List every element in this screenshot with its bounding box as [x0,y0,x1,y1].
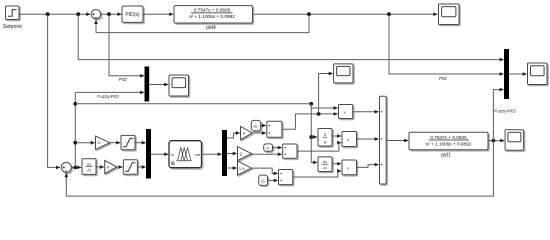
scope Scope5 [505,130,523,150]
svg-text:Fuzzy-PID: Fuzzy-PID [494,109,516,114]
svg-text:0.7547s + 0.0605: 0.7547s + 0.0605 [430,135,467,140]
wire mux2 to scope4 [509,73,527,75]
wire pid1 to scope5 [488,140,504,142]
wire P5 to Add [357,138,379,140]
svg-text:out: out [195,152,201,157]
svg-text:Δu: Δu [87,162,91,166]
node junction x=389 [387,12,391,16]
svg-text:pid1: pid1 [441,153,451,159]
wire saturation2 to mux3 [137,166,145,168]
svg-text:-C-: -C- [265,146,271,151]
wire fuzzy to demux [202,153,222,155]
node junction (311.25,137) [309,135,313,139]
wire PID to plant pid4 [143,13,173,15]
wire P4 to Add [353,111,379,113]
svg-text:PID(s): PID(s) [125,12,140,18]
transfer function plant pid4 [174,6,253,23]
product P3 [279,170,293,185]
svg-text:Setpoint: Setpoint [3,24,23,30]
wire demux out1 to gain Ku1 [227,133,240,138]
svg-text:PID: PID [119,77,127,82]
wire feedback pid loop: down from x=309 [96,14,309,32]
wire e into product4 input1 [311,107,337,109]
wire saturation1 to mux3 [135,142,146,144]
mux Mux3 [147,130,151,179]
wire pid error branch x=109 to mux1 input1 [109,14,144,76]
svg-text:Δu: Δu [323,160,327,164]
wire C1 to product P1 [261,125,266,127]
constant C1 [251,120,260,130]
wire P6 to Add [357,165,379,168]
wire C2 to product P2 [273,147,282,149]
wire fuzzy error to mux1 input2 [75,91,144,93]
wire pid response branch x=389 to mux2 [389,14,504,74]
node junction (75.3,167.4) [73,166,77,170]
scope Scope1 [439,4,460,25]
gain Ku1 triangle [241,126,253,139]
wire error vertical x=311.25 [310,104,312,163]
wire e to integrator [311,136,317,138]
gain 2 triangle [238,147,252,161]
discrete derivative block row2 [82,159,96,175]
wire gain Ke to saturation1 [110,142,120,144]
saturation block row1 [121,135,135,149]
node junction on setpoint line x=47.6 [46,12,50,16]
constant C2 [264,144,273,151]
gain 1.5 triangle [238,161,252,175]
wire C3 to product P3 [268,179,278,181]
gain Kec triangle [105,160,117,173]
transfer function plant pid1 [409,132,488,150]
wire gain Ku1 to product P1 [252,132,266,134]
wire e to discrete derivative 3 [311,161,317,163]
mux Mux2 [505,50,509,99]
sum junction sum1 [91,10,100,19]
node junction on setpoint line x=78.2 [76,12,80,16]
wire integrator to P5 [332,135,341,137]
wire setpoint branch x=78.2 to mux2 input1 [78,14,503,59]
svg-text:pid4: pid4 [206,25,216,31]
scope Scope2 [169,75,189,96]
constant C3 [259,175,268,185]
wire gain 2 to product P2 [252,153,282,155]
product P1 [267,121,282,137]
wire P2 output Ki to P5 [297,143,341,152]
svg-text:0.7547s + 0.0605: 0.7547s + 0.0605 [194,8,231,13]
svg-text:s² + 1.1006s + 0.0892: s² + 1.1006s + 0.0892 [189,14,235,19]
node junction (493.4,140.6) [492,139,496,143]
wire sum1 to PID [101,13,122,15]
svg-text:PID: PID [439,76,447,81]
wire setpoint to sum1 [19,13,90,15]
svg-text:-K-: -K- [242,132,247,136]
svg-text:-K-: -K- [106,166,111,170]
svg-text:x: x [347,165,349,170]
svg-text:-K-: -K- [97,141,102,145]
wire to gain Ke row1 [75,142,94,144]
discrete derivative block 3 [318,157,332,172]
wire demux out2 to gain 2 [227,153,237,155]
node junction x=309 [307,12,311,16]
scope Scope4 [528,63,548,85]
demux Demux [223,131,227,176]
node junction (75.3,103.8) [73,102,77,106]
wire setpoint branch x=47.6 down to sum2 [48,14,60,167]
wire pid4 to scope1 [253,13,438,15]
wire P3 output Kd to P6 [293,171,341,177]
wire arrow into sum1 bottom [95,20,97,26]
wire demux out3 to gain 1.5 [227,167,237,169]
svg-text:x: x [347,137,349,142]
node junction (311.25,103.8) [309,102,313,106]
wire P1 output Kp up and right [282,114,338,129]
svg-text:Fuzzy-PID: Fuzzy-PID [97,94,119,99]
saturation block row2 [123,160,137,174]
wire Kp up to scope3 [319,74,333,114]
svg-text:1.5: 1.5 [239,166,245,171]
svg-text:x: x [344,109,346,114]
svg-text:-C-: -C- [260,179,266,184]
wire gain Kec to saturation2 [117,166,123,168]
fuzzy logic controller block [169,141,202,168]
node junction (75.3,142.7) [73,141,77,145]
mux Mux1 [145,67,149,101]
wire error line e to product Kp [75,103,311,105]
wire error vertical x=75.3 [74,92,76,167]
wire gain 1.5 to product P3 [252,168,278,173]
PID controller block PID(s) [122,6,143,22]
svg-text:s² + 1.1006s + 0.0892: s² + 1.1006s + 0.0892 [426,141,472,146]
integrator block 1/s [318,129,332,147]
product P4 Kp*e [339,105,353,119]
wire mux3 to fuzzy controller [151,153,169,155]
wire fuzzy response up to mux2 [493,90,503,141]
svg-text:in: in [171,152,174,157]
product P6 Kd*deriv [342,160,357,175]
sum junction sum2 [61,162,71,172]
add block (tall) [380,96,387,184]
product P5 Ki*integral [342,132,357,147]
svg-text:-C-: -C- [253,124,259,129]
wire sum2 output to deriv row [71,166,81,168]
gain Ke triangle [96,136,110,149]
wire Add to pid1 [386,140,408,142]
node junction x=109 [107,12,111,16]
scope Scope3 [334,64,353,83]
wire deriv to gain Kec [96,166,104,168]
svg-text:Δt: Δt [87,168,90,172]
wire deriv3 to P6 [332,163,341,165]
node junction (318.6,113.9) [317,112,321,116]
svg-text:Δt: Δt [323,166,326,170]
wire mux1 to scope2 [149,84,169,86]
step source Setpoint [6,6,20,20]
product P2 [283,144,297,158]
wire fuzzy feedback to sum2 [66,141,493,197]
